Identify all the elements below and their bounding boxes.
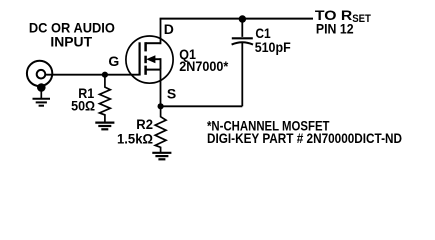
svg-text:INPUT: INPUT bbox=[50, 34, 92, 50]
svg-text:50Ω: 50Ω bbox=[71, 97, 95, 113]
svg-text:PIN 12: PIN 12 bbox=[316, 21, 354, 37]
svg-text:2N7000*: 2N7000* bbox=[179, 58, 228, 74]
svg-text:G: G bbox=[108, 53, 119, 69]
svg-text:510pF: 510pF bbox=[255, 39, 291, 55]
svg-text:SET: SET bbox=[352, 13, 371, 25]
svg-text:S: S bbox=[167, 86, 176, 102]
svg-text:R2: R2 bbox=[136, 116, 153, 132]
svg-text:D: D bbox=[164, 21, 174, 37]
svg-text:1.5kΩ: 1.5kΩ bbox=[117, 131, 153, 147]
svg-text:DIGI-KEY PART # 2N70000DICT-ND: DIGI-KEY PART # 2N70000DICT-ND bbox=[207, 130, 402, 146]
